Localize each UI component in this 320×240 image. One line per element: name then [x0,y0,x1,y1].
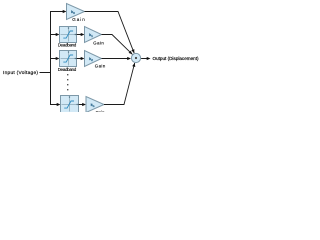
deadband D2 [60,51,77,67]
svg-text:Deadband: Deadband [58,42,77,47]
sum junction [131,53,140,62]
deadband D1 [60,27,77,43]
svg-text:Gain: Gain [93,40,104,45]
svg-text:Gain: Gain [72,17,85,22]
gain K1 [85,27,102,43]
deadband Dn [61,96,79,113]
wire branch bottom row [50,104,57,106]
wire input to trunk [40,72,51,74]
wire gain K2 output to sum [102,58,129,60]
ellipsis dots [67,74,68,75]
svg-text:Input (Voltage): Input (Voltage) [3,70,38,76]
wire gain K0 output to sum [85,12,135,54]
svg-text:Gain: Gain [95,110,105,112]
wire D1 to gain K1 [77,34,82,36]
wire gain K1 output to sum [102,35,133,55]
svg-text:Deadband: Deadband [58,67,77,72]
gain K2 [85,51,102,67]
gain K0 (top) [67,4,85,20]
wire D2 to gain K2 [77,58,82,60]
svg-text:Output (Displacement): Output (Displacement) [153,56,199,61]
svg-text:Gain: Gain [95,64,106,69]
wire branch row3 [50,58,56,60]
wire trunk vertical [50,11,52,105]
wire gain Kn output to sum [104,63,135,105]
wire Dn to gain Kn [79,104,83,106]
wire sum to output [141,58,147,60]
gain Kn [86,97,104,113]
wire branch row1 [50,11,64,13]
wire branch row2 [50,34,56,36]
